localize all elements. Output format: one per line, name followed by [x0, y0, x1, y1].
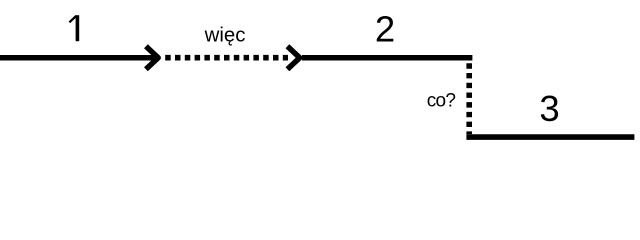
- wire: vertical dotted segment (co?): [466, 63, 472, 134]
- arrowhead at end of dotted segment: [287, 46, 299, 69]
- svg-text:3: 3: [539, 88, 559, 129]
- svg-text:2: 2: [375, 8, 395, 49]
- wire: solid segment 1 (left edge to first arrow): [0, 55, 156, 61]
- wire: dotted segment (więc): [165, 55, 288, 61]
- wire: solid segment 3 (bottom): [466, 134, 634, 140]
- svg-text:więc: więc: [204, 24, 246, 46]
- arrowhead at end of segment 1: [146, 46, 158, 69]
- svg-text:co?: co?: [427, 90, 456, 111]
- wire: solid segment 2: [302, 55, 472, 61]
- label 1 (drawn digit, no foot serif): [69, 15, 77, 41]
